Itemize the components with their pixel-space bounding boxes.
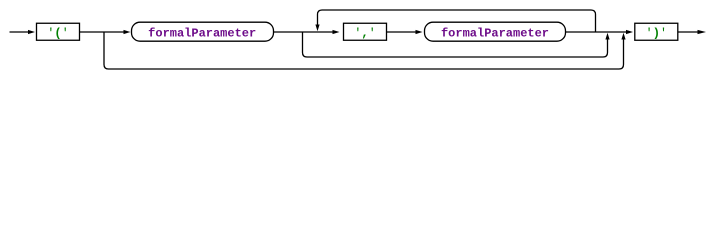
svg-text:'(': '(' xyxy=(47,26,69,40)
terminal ',' xyxy=(344,23,387,40)
wire inner bypass (skip comma loop) xyxy=(303,32,610,57)
wire from '(' to formalParameter xyxy=(80,30,131,34)
nonterminal formalParameter (second) xyxy=(425,22,566,41)
wire from formalParameter to ')' xyxy=(566,30,634,34)
svg-text:formalParameter: formalParameter xyxy=(148,26,256,40)
wire outer bypass (skip all parameters) xyxy=(104,32,626,69)
svg-text:',': ',' xyxy=(354,26,376,40)
svg-text:')': ')' xyxy=(645,26,667,40)
wire start xyxy=(10,30,36,34)
wire loop back over ',' formalParameter xyxy=(315,10,595,32)
nonterminal formalParameter (first) xyxy=(132,22,274,41)
wire from ',' to formalParameter xyxy=(387,30,423,34)
svg-text:formalParameter: formalParameter xyxy=(441,26,549,40)
wire end xyxy=(678,30,706,34)
terminal '(' xyxy=(37,23,80,40)
terminal ')' xyxy=(635,23,678,40)
wire from formalParameter to ',' xyxy=(273,30,340,34)
